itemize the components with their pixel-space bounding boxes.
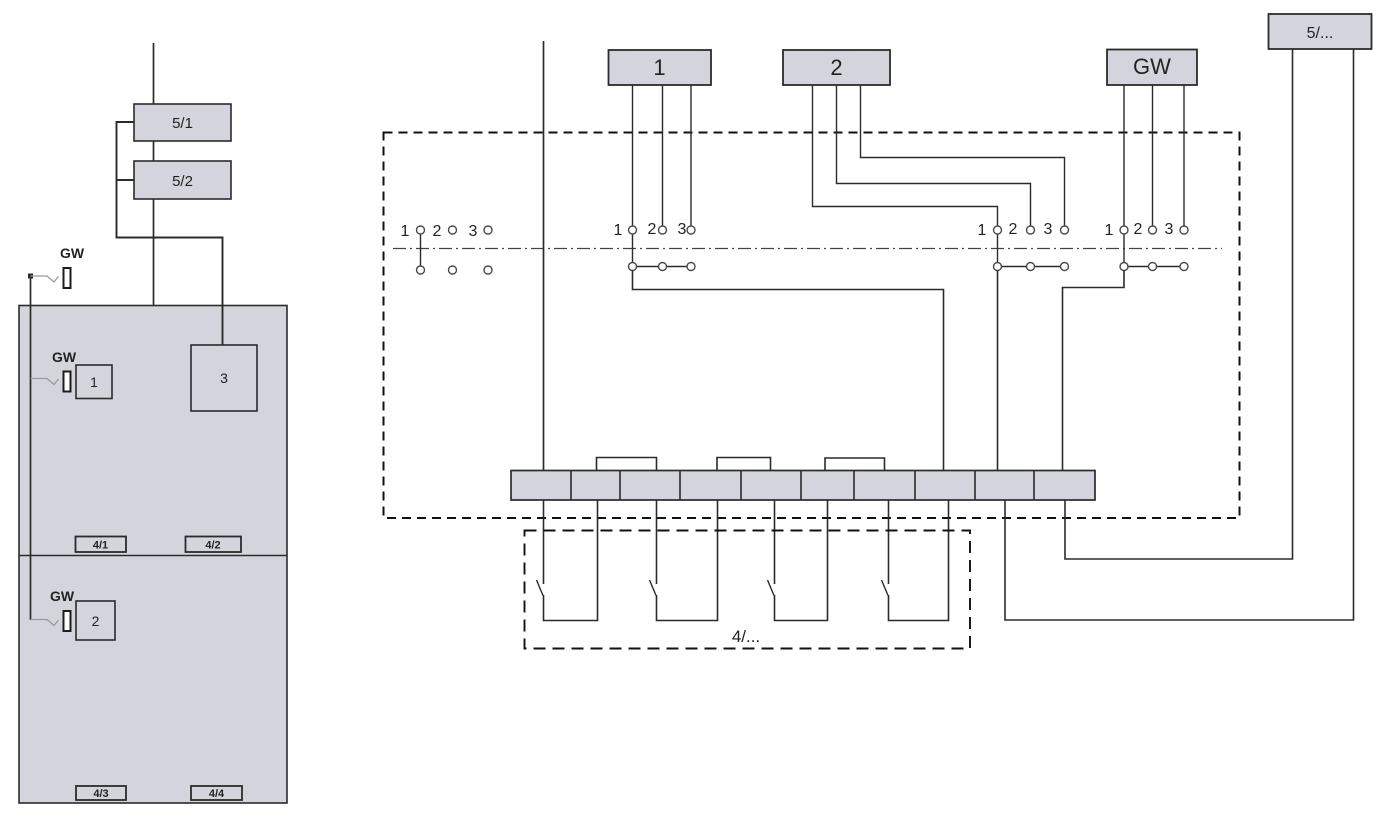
svg-text:2: 2 xyxy=(433,223,442,240)
switch S2 upper wire xyxy=(656,500,658,584)
wire bracket joining 5/1 and 5/2 to box 3 xyxy=(117,122,223,345)
terminal group C xyxy=(978,221,1069,271)
wire top feed into 5/1 xyxy=(153,43,155,104)
terminal row dividers xyxy=(571,471,1034,501)
box 4/3 xyxy=(76,786,126,800)
svg-text:3: 3 xyxy=(1165,221,1174,238)
svg-text:5/...: 5/... xyxy=(1307,25,1334,42)
wire 5/1 to 5/2 xyxy=(153,141,155,161)
wire squiggle to fuse GW top xyxy=(31,276,59,282)
box 2 (cabinet) xyxy=(76,601,115,640)
wire long vertical xyxy=(543,41,545,470)
box 1 (cabinet) xyxy=(76,365,112,399)
terminal group A xyxy=(401,223,492,274)
svg-text:4/4: 4/4 xyxy=(209,788,225,800)
svg-text:GW: GW xyxy=(50,588,75,604)
svg-text:2: 2 xyxy=(92,613,100,629)
wire box1 pin3 down xyxy=(690,85,692,226)
svg-text:1: 1 xyxy=(1105,222,1114,239)
dashed box 4/... xyxy=(525,531,971,649)
switch S1 upper wire xyxy=(543,500,545,584)
wire group D to terminal row xyxy=(1063,271,1125,471)
terminal group B xyxy=(614,221,695,271)
node ground top junction xyxy=(28,274,33,279)
cabinet divider xyxy=(19,555,287,557)
terminal row block xyxy=(511,471,1095,501)
terminal group D xyxy=(1105,221,1188,271)
wire box1 pin1 down xyxy=(632,85,634,226)
switch S1 blade xyxy=(537,580,544,596)
jumper bridge cells 6-7 xyxy=(825,458,885,470)
wire boxGW pin2 down xyxy=(1152,85,1154,226)
box 2 (top) xyxy=(783,50,890,85)
switch S2 blade xyxy=(650,580,657,596)
dashed enclosure xyxy=(384,133,1240,519)
switch S4 upper wire xyxy=(888,500,890,584)
wire group C to terminal row xyxy=(997,271,999,471)
fuse GW top xyxy=(64,268,71,288)
wire cell9 to 5/... right pin xyxy=(1005,49,1354,620)
svg-text:3: 3 xyxy=(1044,221,1053,238)
wire box1 pin2 down xyxy=(662,85,664,226)
box 3 (cabinet) xyxy=(191,345,257,411)
wire box2 pin3 to terminal group C xyxy=(861,85,1065,226)
jumper bridge cells 4-5 xyxy=(717,458,771,471)
svg-text:3: 3 xyxy=(678,221,687,238)
svg-text:4/3: 4/3 xyxy=(93,788,108,800)
svg-text:1: 1 xyxy=(401,223,410,240)
wire squiggle to fuse GW bottom xyxy=(31,620,59,626)
svg-text:5/1: 5/1 xyxy=(172,115,193,132)
svg-text:GW: GW xyxy=(1133,54,1171,79)
jumper bridge cells 2-3 xyxy=(597,458,657,471)
svg-text:1: 1 xyxy=(614,222,623,239)
wire box2 pin2 to terminal group C xyxy=(837,85,1031,226)
svg-text:1: 1 xyxy=(653,55,665,80)
svg-text:2: 2 xyxy=(830,55,842,80)
cabinet enclosure xyxy=(19,306,287,804)
wire 5/2 down to cabinet xyxy=(153,199,155,306)
fuse GW mid xyxy=(64,372,71,392)
switch S3 blade xyxy=(768,580,775,596)
svg-text:1: 1 xyxy=(978,222,987,239)
svg-text:4/1: 4/1 xyxy=(93,540,108,552)
switch S3 upper wire xyxy=(774,500,776,584)
box 5/1 xyxy=(134,104,231,141)
svg-text:3: 3 xyxy=(469,223,478,240)
switch S1 lower wire and return xyxy=(544,500,598,621)
box GW (top) xyxy=(1107,50,1197,86)
svg-text:4/2: 4/2 xyxy=(205,540,220,552)
svg-text:3: 3 xyxy=(220,370,228,386)
wire boxGW pin3 down xyxy=(1183,85,1185,226)
svg-text:GW: GW xyxy=(60,245,85,261)
box 4/1 xyxy=(76,537,127,553)
switch S3 lower wire and return xyxy=(775,500,828,621)
box 4/4 xyxy=(191,786,242,800)
ground wire over cabinet xyxy=(30,306,32,620)
svg-text:GW: GW xyxy=(52,349,77,365)
ground wire vertical xyxy=(30,276,32,621)
wire cell10 to 5/... left pin xyxy=(1065,49,1293,559)
svg-text:2: 2 xyxy=(1009,221,1018,238)
svg-text:2: 2 xyxy=(648,221,657,238)
wire squiggle to fuse GW mid xyxy=(31,379,59,385)
svg-text:1: 1 xyxy=(90,374,98,390)
box 1 (top) xyxy=(609,50,712,85)
switch S4 blade xyxy=(882,580,889,596)
box 4/2 xyxy=(186,537,242,553)
box 5/... (top right) xyxy=(1269,14,1372,49)
dash-dot center line xyxy=(393,248,1222,250)
wire into box 3 over cabinet xyxy=(222,305,224,345)
box 5/2 xyxy=(134,161,231,199)
wire group B to terminal row xyxy=(633,271,944,471)
wire box2 pin1 to terminal group C xyxy=(813,85,998,226)
svg-text:4/...: 4/... xyxy=(732,627,760,646)
svg-text:5/2: 5/2 xyxy=(172,173,193,190)
svg-text:2: 2 xyxy=(1134,221,1143,238)
switch S2 lower wire and return xyxy=(657,500,718,621)
fuse GW bottom xyxy=(64,611,71,631)
wire boxGW pin1 down xyxy=(1123,85,1125,226)
switch S4 lower wire and return xyxy=(889,500,949,621)
